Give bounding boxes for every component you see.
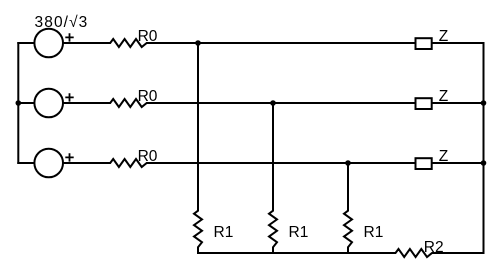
svg-text:Z: Z bbox=[439, 88, 448, 105]
svg-text:R2: R2 bbox=[424, 239, 444, 256]
svg-text:Z: Z bbox=[439, 28, 448, 45]
svg-text:R1: R1 bbox=[214, 224, 234, 241]
svg-text:Z: Z bbox=[439, 148, 448, 165]
svg-text:R0: R0 bbox=[138, 148, 158, 165]
svg-text:380/√3: 380/√3 bbox=[35, 14, 89, 31]
svg-text:R1: R1 bbox=[364, 224, 384, 241]
svg-text:R1: R1 bbox=[289, 224, 309, 241]
svg-text:R0: R0 bbox=[138, 28, 158, 45]
svg-text:R0: R0 bbox=[138, 88, 158, 105]
